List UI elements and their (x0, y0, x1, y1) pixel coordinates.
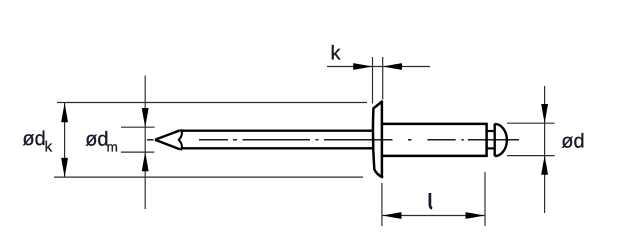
rivet body top line (382, 123, 487, 126)
svg-text:ød: ød (561, 130, 584, 152)
dimension od bottom extension line (507, 155, 555, 157)
rivet body bottom line (382, 155, 487, 158)
svg-text:ød: ød (85, 128, 108, 150)
dimension od_k bottom extension line (54, 176, 363, 178)
dimension od_k line (64, 103, 66, 177)
dimension od down arrow (541, 104, 548, 123)
dimension l line (382, 215, 484, 217)
dimension k extension line right (382, 57, 384, 100)
dimension l right extension line (484, 172, 486, 226)
dimension od_m bottom tick (121, 151, 154, 153)
dimension od line (544, 86, 546, 213)
dimension od_m line (144, 76, 146, 210)
mandrel shaft bottom line (182, 147, 374, 149)
dimension k left arrow (353, 63, 372, 70)
svg-text:k: k (331, 42, 342, 64)
dimension od_k top extension line (57, 102, 367, 104)
dimension od_k up arrow (61, 103, 68, 122)
svg-text:ød: ød (22, 128, 45, 150)
rivet body end face (485, 123, 488, 157)
dimension l left extension line (381, 183, 383, 226)
rivet head right face (381, 101, 384, 178)
mandrel head dome face (494, 124, 496, 157)
label l (430, 193, 432, 208)
svg-text:m: m (107, 140, 118, 155)
mandrel shaft top line (182, 130, 374, 132)
dimension od_m top tick (121, 126, 155, 128)
dimension l left arrow (383, 212, 402, 219)
dimension k right arrow (383, 63, 402, 70)
mandrel point (155, 129, 182, 150)
dimension od_k down arrow (61, 158, 68, 177)
dimension od top extension line (507, 122, 555, 124)
dimension l right arrow (466, 212, 485, 219)
svg-text:k: k (45, 139, 53, 156)
dimension k line (327, 66, 430, 68)
dimension od_m down arrow (142, 108, 149, 127)
centerline (147, 139, 519, 141)
mandrel head dome arc (495, 124, 507, 156)
mandrel neck bottom (487, 147, 495, 149)
dimension k extension line left (372, 57, 374, 104)
dimension od up arrow (541, 156, 548, 175)
mandrel neck top (487, 130, 495, 132)
dimension od_m up arrow (142, 152, 149, 171)
rivet head flange outline (373, 101, 383, 178)
